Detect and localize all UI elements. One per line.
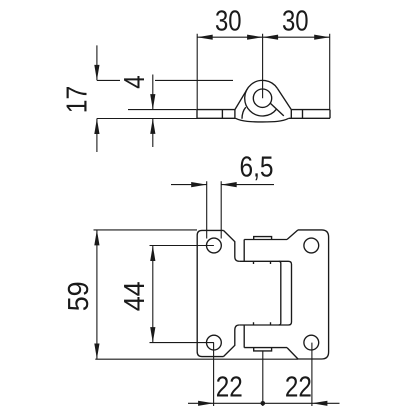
svg-text:30: 30	[215, 5, 242, 37]
svg-text:30: 30	[282, 5, 309, 37]
svg-text:6,5: 6,5	[240, 151, 274, 183]
svg-text:22: 22	[285, 372, 312, 404]
svg-text:59: 59	[63, 281, 95, 311]
svg-text:17: 17	[62, 86, 94, 113]
svg-text:44: 44	[119, 281, 151, 311]
svg-text:4: 4	[119, 75, 151, 89]
svg-text:22: 22	[216, 372, 243, 404]
